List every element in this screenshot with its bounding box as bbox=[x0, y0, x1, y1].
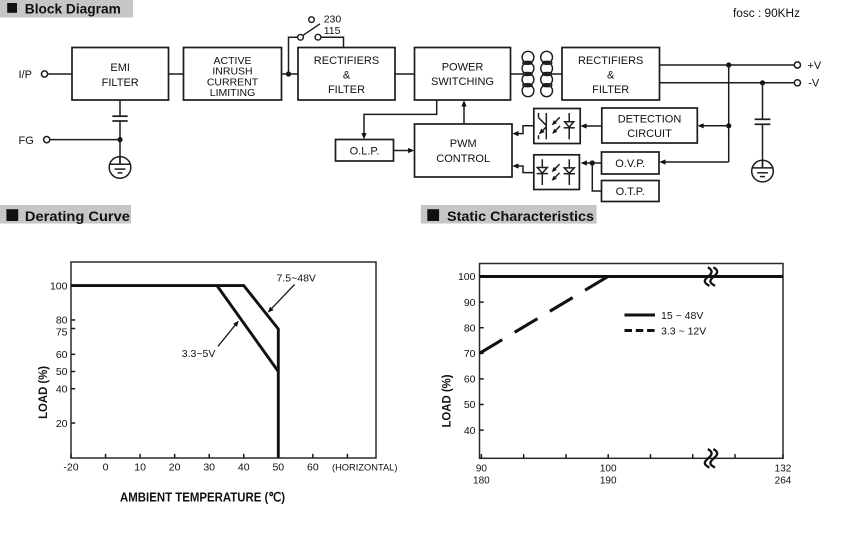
svg-text:90: 90 bbox=[464, 297, 476, 309]
svg-text:EMI: EMI bbox=[110, 62, 130, 74]
wire J5 to O.T.P. bbox=[592, 163, 601, 191]
svg-text:0: 0 bbox=[103, 461, 109, 473]
svg-text:LIMITING: LIMITING bbox=[210, 87, 256, 99]
svg-text:40: 40 bbox=[56, 383, 68, 395]
static y-axis ticks bbox=[480, 277, 484, 431]
wire EMI FILTER to capacitor C1 bbox=[119, 100, 121, 116]
switch SW1 contact 115 bbox=[315, 34, 321, 40]
capacitor C2 (output Y-cap) bbox=[755, 118, 771, 120]
terminal I/P bbox=[41, 71, 47, 77]
svg-text:O.V.P.: O.V.P. bbox=[615, 158, 645, 170]
svg-text:LOAD (%): LOAD (%) bbox=[36, 366, 50, 419]
static y-axis labels bbox=[458, 271, 476, 437]
svg-text:80: 80 bbox=[56, 314, 68, 326]
opto U1 light arrows bbox=[554, 117, 560, 123]
legend 15~48V bbox=[625, 314, 656, 317]
svg-text:10: 10 bbox=[134, 461, 146, 473]
block RECTIFIERS & FILTER (output) bbox=[562, 48, 660, 101]
wire EMI FILTER to ACTIVE INRUSH CURRENT LIMITING bbox=[169, 73, 184, 75]
svg-text:50: 50 bbox=[272, 461, 284, 473]
svg-text:FILTER: FILTER bbox=[328, 84, 365, 96]
svg-text:DETECTION: DETECTION bbox=[618, 113, 682, 125]
opto-coupler U2 (protection isolator) bbox=[534, 155, 580, 190]
arrowhead into PWM right (from U2) bbox=[512, 163, 518, 168]
svg-text:20: 20 bbox=[169, 461, 181, 473]
section header: Static Characteristics bbox=[421, 205, 597, 224]
opto U1 LED bbox=[564, 113, 575, 139]
svg-text:115: 115 bbox=[324, 25, 341, 37]
block POWER SWITCHING bbox=[415, 48, 511, 101]
svg-text:3.3 ~ 12V: 3.3 ~ 12V bbox=[661, 325, 706, 337]
svg-text:FG: FG bbox=[19, 135, 34, 147]
derating chart plot frame bbox=[71, 262, 376, 458]
svg-text:50: 50 bbox=[56, 366, 68, 378]
transformer T1 primary winding bbox=[522, 51, 534, 96]
wire PWM CONTROL to opto U2 bbox=[515, 166, 534, 173]
derating x-axis ticks bbox=[71, 454, 347, 458]
wire J5 to O.V.P. bbox=[592, 162, 601, 164]
terminal FG bbox=[44, 137, 50, 143]
wire RECTIFIERS & FILTER 1 to POWER SWITCHING bbox=[395, 73, 415, 75]
derating x-axis labels bbox=[63, 461, 397, 473]
svg-text:RECTIFIERS: RECTIFIERS bbox=[578, 55, 643, 67]
wire POWER SWITCHING to transformer primary bbox=[511, 73, 523, 75]
svg-text:100: 100 bbox=[600, 463, 617, 474]
transformer T1 secondary winding bbox=[541, 51, 553, 96]
legend 3.3~12V bbox=[625, 329, 656, 332]
svg-text:FILTER: FILTER bbox=[592, 84, 629, 96]
svg-text:7.5~48V: 7.5~48V bbox=[277, 273, 316, 285]
wire DETECTION CIRCUIT to opto U1 with arrow bbox=[584, 125, 602, 127]
wire FG terminal to FG node bbox=[50, 139, 120, 141]
wire J1 riser to voltage selector switch bbox=[289, 37, 298, 74]
arrowhead into O.L.P. top bbox=[361, 133, 366, 139]
block EMI FILTER bbox=[72, 48, 169, 101]
svg-text:75: 75 bbox=[56, 326, 68, 338]
svg-text:CIRCUIT: CIRCUIT bbox=[627, 128, 672, 140]
opto U2 photodiode bbox=[537, 159, 548, 185]
svg-text:LOAD (%): LOAD (%) bbox=[440, 375, 454, 428]
svg-text:40: 40 bbox=[238, 461, 250, 473]
node J5 protection junction bbox=[590, 160, 595, 165]
wire O.L.P. to PWM CONTROL with arrow bbox=[394, 150, 412, 152]
block ACTIVE INRUSH CURRENT LIMITING bbox=[184, 48, 282, 101]
node FG junction bbox=[117, 137, 122, 142]
svg-text:CONTROL: CONTROL bbox=[436, 153, 490, 165]
svg-text:100: 100 bbox=[458, 271, 476, 283]
svg-text:60: 60 bbox=[464, 374, 476, 386]
node J1 (input select tap) bbox=[286, 71, 291, 76]
switch SW1 lever bbox=[303, 24, 320, 36]
wire +V rail bbox=[660, 64, 795, 66]
wire capacitor C2 to output ground bbox=[762, 124, 764, 168]
wire J2 branch to O.V.P. with arrow bbox=[663, 161, 729, 163]
axis break symbol on 100% line bbox=[705, 267, 717, 286]
svg-text:50: 50 bbox=[464, 399, 476, 411]
svg-text:230: 230 bbox=[324, 14, 342, 26]
svg-text:60: 60 bbox=[307, 461, 319, 473]
wire J3 to DETECTION CIRCUIT with arrow bbox=[701, 125, 729, 127]
svg-text:(HORIZONTAL): (HORIZONTAL) bbox=[332, 462, 397, 472]
svg-text:30: 30 bbox=[203, 461, 215, 473]
terminal +V bbox=[794, 62, 800, 68]
wire -V rail bbox=[660, 82, 795, 84]
opto-coupler U1 (feedback isolator) bbox=[534, 109, 580, 144]
wire J4 down to output capacitor bbox=[762, 83, 764, 120]
svg-text:O.L.P.: O.L.P. bbox=[350, 145, 380, 157]
arrowhead into PWM right (from U1) bbox=[512, 131, 518, 136]
terminal -V bbox=[794, 80, 800, 86]
svg-text:SWITCHING: SWITCHING bbox=[431, 76, 494, 88]
svg-text:-V: -V bbox=[808, 78, 820, 90]
node J3 detection tap bbox=[726, 123, 731, 128]
opto U1 phototransistor bbox=[539, 113, 547, 139]
svg-text:Static Characteristics: Static Characteristics bbox=[447, 208, 594, 224]
svg-text:I/P: I/P bbox=[19, 69, 32, 81]
ground symbol (input earth) bbox=[109, 157, 131, 179]
svg-text:Derating Curve: Derating Curve bbox=[25, 208, 130, 224]
block O.T.P. bbox=[602, 181, 660, 202]
svg-text:FILTER: FILTER bbox=[102, 77, 139, 89]
node J4 on -V rail bbox=[760, 80, 765, 85]
svg-text:O.T.P.: O.T.P. bbox=[616, 186, 645, 198]
block DETECTION CIRCUIT bbox=[602, 108, 698, 143]
wire switch 115 contact to RECTIFIERS & FILTER 1 top bbox=[321, 37, 344, 47]
svg-text:3.3~5V: 3.3~5V bbox=[182, 348, 216, 360]
wire FG node to input ground bbox=[119, 140, 121, 165]
svg-text:-20: -20 bbox=[63, 461, 78, 473]
axis break symbol on x-axis bbox=[705, 449, 717, 468]
switch SW1 contact 230 bbox=[309, 17, 315, 23]
svg-text:POWER: POWER bbox=[442, 61, 484, 73]
static curve 3.3~12V (dashed) bbox=[480, 277, 609, 354]
svg-text:100: 100 bbox=[50, 280, 68, 292]
capacitor C1 (input Y-cap) bbox=[112, 115, 127, 117]
svg-text:264: 264 bbox=[775, 475, 792, 486]
svg-text:PWM: PWM bbox=[450, 138, 477, 150]
block O.V.P. bbox=[602, 152, 660, 174]
svg-text:70: 70 bbox=[464, 348, 476, 360]
node J2 on +V rail bbox=[726, 62, 731, 67]
static x-axis labels (two rows) bbox=[473, 463, 792, 486]
svg-text:fosc : 90KHz: fosc : 90KHz bbox=[733, 6, 800, 20]
static chart plot frame bbox=[480, 264, 784, 459]
svg-text:90: 90 bbox=[476, 463, 488, 474]
block RECTIFIERS & FILTER (input) bbox=[298, 48, 395, 101]
derating curve 7.5~48V bbox=[71, 286, 278, 458]
svg-text:132: 132 bbox=[775, 463, 792, 474]
derating curve 3.3~5V bbox=[217, 286, 278, 372]
block PWM CONTROL bbox=[415, 124, 513, 177]
opto U2 LED bbox=[564, 159, 575, 185]
block O.L.P. bbox=[336, 140, 394, 162]
svg-text:60: 60 bbox=[56, 349, 68, 361]
svg-text:+V: +V bbox=[808, 60, 822, 72]
wire opto U1 to PWM CONTROL bbox=[515, 126, 534, 134]
svg-text:80: 80 bbox=[464, 322, 476, 334]
wire I/P to EMI FILTER bbox=[48, 73, 72, 75]
wire transformer secondary to RECTIFIERS & FILTER 2 bbox=[553, 73, 563, 75]
wire J2 down to detection tap bbox=[728, 65, 730, 162]
svg-text:15 ~ 48V: 15 ~ 48V bbox=[661, 310, 703, 322]
wire O.V.P./O.T.P. to opto U2 with arrow bbox=[584, 162, 593, 164]
svg-text:180: 180 bbox=[473, 475, 490, 486]
svg-text:190: 190 bbox=[600, 475, 617, 486]
wire PWM CONTROL to POWER SWITCHING with up arrow bbox=[463, 103, 465, 124]
derating y-axis ticks bbox=[71, 286, 75, 423]
svg-text:20: 20 bbox=[56, 418, 68, 430]
wire ACTIVE INRUSH to RECTIFIERS & FILTER 1 bbox=[282, 73, 299, 75]
opto U2 light arrows bbox=[553, 164, 559, 170]
wire capacitor C1 to FG node bbox=[119, 121, 121, 140]
static curve 15~48V (solid 100% line) bbox=[480, 275, 784, 278]
switch SW1 common contact bbox=[298, 34, 304, 40]
svg-text:40: 40 bbox=[464, 425, 476, 437]
section header: Block Diagram bbox=[0, 0, 133, 18]
svg-text:Block Diagram: Block Diagram bbox=[25, 1, 121, 17]
wire POWER SWITCHING bottom to O.L.P. feed bbox=[364, 100, 437, 137]
static x-axis ticks bbox=[481, 454, 783, 458]
svg-text:&: & bbox=[343, 70, 351, 82]
ground symbol (output earth) bbox=[752, 160, 774, 182]
derating y-axis labels bbox=[50, 280, 68, 430]
svg-text:&: & bbox=[607, 70, 615, 82]
section header: Derating Curve bbox=[0, 205, 131, 224]
svg-text:RECTIFIERS: RECTIFIERS bbox=[314, 55, 379, 67]
svg-text:AMBIENT TEMPERATURE (℃): AMBIENT TEMPERATURE (℃) bbox=[120, 489, 285, 504]
